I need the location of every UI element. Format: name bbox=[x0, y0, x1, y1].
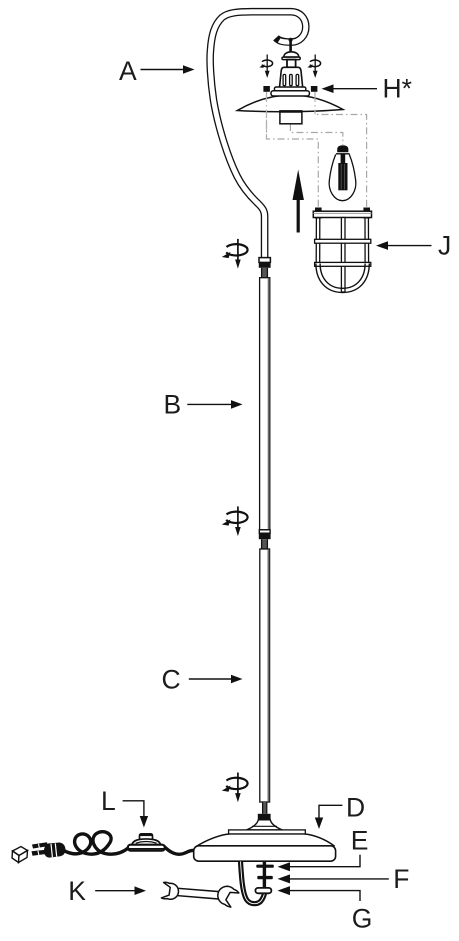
cage side bar left bbox=[316, 218, 320, 264]
joint 1: connector block bbox=[259, 262, 271, 267]
cap nut G bbox=[255, 888, 271, 893]
dash-dot guide line from socket box to bulb bbox=[290, 124, 342, 145]
arc pole A outer bbox=[210, 12, 306, 259]
bulb cap bbox=[337, 145, 348, 152]
finial dome bbox=[284, 52, 299, 57]
socket neck bbox=[287, 60, 296, 68]
pole section B bbox=[260, 278, 270, 530]
svg-text:K: K bbox=[68, 876, 86, 906]
shade dome bbox=[237, 95, 343, 112]
svg-text:D: D bbox=[346, 793, 365, 823]
cage bolt right bbox=[363, 208, 370, 219]
joint 3: bell flange bbox=[246, 820, 282, 830]
rotate symbol joint 3 bbox=[222, 773, 248, 803]
svg-text:E: E bbox=[351, 826, 369, 856]
base D: rim bbox=[194, 846, 336, 861]
socket vents bbox=[283, 74, 286, 85]
nut F bbox=[257, 876, 273, 879]
svg-text:H*: H* bbox=[383, 73, 412, 103]
cage side bar right bbox=[365, 218, 369, 264]
plug bbox=[32, 842, 66, 857]
bulb filament bbox=[338, 163, 347, 190]
pole section C bbox=[260, 549, 270, 802]
base D: ridge plate bbox=[229, 830, 306, 834]
svg-text:A: A bbox=[119, 56, 137, 86]
washer E bbox=[256, 865, 274, 868]
guide lines over shade bbox=[266, 95, 268, 139]
svg-text:C: C bbox=[162, 665, 181, 695]
switch L: base bbox=[128, 845, 165, 851]
step ring 2 bbox=[271, 91, 309, 96]
screw H left bbox=[263, 86, 270, 92]
socket box under shade bbox=[280, 111, 302, 124]
cage ring 2 bbox=[315, 262, 371, 266]
rotate symbol joint 1 bbox=[222, 239, 248, 269]
rotate symbol small left bbox=[259, 55, 272, 79]
screw H right bbox=[311, 86, 318, 92]
switch L: button bbox=[140, 834, 153, 840]
joint 3: connector block bbox=[258, 814, 271, 820]
cord J-curve under base bbox=[241, 862, 265, 904]
dash-dot guide line from left screw to cage left bolt bbox=[267, 92, 319, 208]
cage guard J bbox=[313, 208, 371, 293]
svg-text:J: J bbox=[438, 230, 451, 260]
plug cover box bbox=[12, 847, 28, 863]
bulb neck bbox=[341, 154, 346, 164]
arc pole A inner white bbox=[210, 12, 306, 259]
thick up arrow bbox=[297, 197, 300, 233]
hanger rod from hook bbox=[289, 39, 292, 53]
cord coils bbox=[62, 832, 129, 855]
svg-text:B: B bbox=[164, 390, 182, 420]
svg-text:L: L bbox=[101, 786, 116, 816]
dash-dot guide line from right screw to cage right bolt bbox=[315, 92, 367, 207]
base D: dome bbox=[195, 834, 334, 847]
switch L: dome bbox=[132, 839, 161, 845]
bulb glass bbox=[329, 154, 356, 200]
joint 2: threaded rod bbox=[262, 539, 268, 549]
cord from switch to base bbox=[163, 846, 194, 855]
joint 2: connector block bbox=[259, 533, 271, 539]
cage top bar bbox=[313, 211, 371, 217]
step ring 1 bbox=[274, 87, 306, 91]
cage center bar bbox=[341, 218, 345, 293]
bulb glass rim bbox=[336, 153, 350, 155]
svg-text:G: G bbox=[352, 904, 373, 934]
socket housing U1 bbox=[280, 67, 303, 87]
joint 1: threaded rod bbox=[262, 268, 268, 278]
svg-text:F: F bbox=[393, 864, 409, 894]
cage ring 1 bbox=[315, 239, 371, 243]
rotate symbol joint 2 bbox=[222, 506, 248, 536]
wrench K bbox=[161, 882, 239, 907]
stud under base bbox=[263, 862, 266, 893]
joint 2: collar bbox=[259, 530, 270, 533]
cage bottom U inner bbox=[320, 264, 365, 289]
joint 1: collar bbox=[259, 258, 270, 263]
cage bolt left bbox=[315, 208, 322, 219]
joint 3: threaded rod into base bbox=[263, 802, 267, 814]
rotate symbol small right bbox=[307, 55, 320, 79]
cage bottom U outer bbox=[316, 264, 369, 293]
